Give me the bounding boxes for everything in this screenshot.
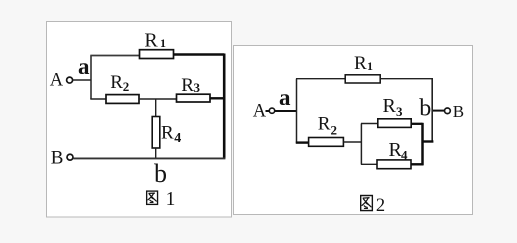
terminal B (fig2) (445, 102, 465, 121)
svg-text:R: R (318, 113, 331, 134)
resistor R2 (fig1) (106, 95, 139, 104)
svg-text:2: 2 (376, 196, 385, 216)
figure 2 panel (234, 46, 473, 215)
wire R4 stub top (fig1) (155, 99, 157, 118)
svg-text:a: a (279, 85, 291, 110)
svg-text:1: 1 (166, 189, 176, 210)
wire block bottom branch right thick (fig2) (411, 163, 423, 165)
wire middle left segment (fig1) (90, 98, 106, 100)
figure 1 panel (47, 22, 232, 218)
svg-text:4: 4 (174, 131, 181, 146)
svg-text:1: 1 (160, 36, 166, 50)
wire block left edge (fig2) (360, 124, 362, 165)
svg-text:A: A (50, 70, 64, 90)
wire middle mid segment (fig1) (139, 98, 177, 100)
wire left vertical (fig1) (90, 56, 92, 100)
wire R2 to block (fig2) (343, 141, 361, 143)
wire A lead (fig1) (73, 79, 91, 81)
svg-text:R: R (144, 30, 158, 52)
svg-text:B: B (51, 147, 64, 168)
wire block to right vertical stub (fig2) (422, 140, 434, 142)
label R2 (fig1) (110, 72, 129, 94)
svg-text:R: R (161, 123, 174, 144)
wire block bottom branch left (fig2) (361, 163, 377, 165)
terminal A (fig2) (253, 101, 275, 121)
resistor R1 (fig2) (345, 75, 380, 83)
resistor R3 (fig2) (378, 119, 411, 128)
label R1 (fig2) (354, 53, 373, 74)
wire top right thick segment (fig1) (174, 53, 225, 56)
svg-text:R: R (383, 95, 397, 117)
label R4 (fig2) (389, 139, 409, 163)
svg-text:b: b (154, 159, 167, 188)
svg-text:a: a (78, 54, 90, 79)
wire R2 left thick stub (fig2) (296, 141, 309, 143)
resistor R4 (fig2) (377, 160, 411, 169)
wire right vertical (fig2) (431, 79, 433, 143)
wire right vertical (fig1) (223, 54, 226, 159)
label R2 (fig2) (318, 113, 337, 137)
label R1 (fig1) (144, 30, 166, 52)
label R4 (fig1) (161, 123, 181, 146)
wire top left segment (fig1) (90, 55, 140, 57)
wire R4 stub bottom (fig1) (155, 148, 157, 159)
svg-text:b: b (419, 96, 431, 122)
wire block top branch right thick (fig2) (411, 123, 423, 125)
wire top right segment (fig2) (380, 78, 433, 80)
caption glyph tu (fig1) (147, 191, 158, 204)
svg-text:1: 1 (367, 59, 373, 73)
wire B lead (fig2) (433, 110, 445, 112)
wire left vertical (fig2) (296, 79, 298, 144)
resistor R4 (fig1) (152, 117, 160, 149)
wire block right edge thick (fig2) (421, 123, 424, 166)
svg-text:R: R (181, 75, 194, 96)
wire R3 to right vertical thick (fig1) (210, 97, 224, 99)
svg-text:R: R (110, 72, 123, 93)
wire A lead (fig2) (266, 110, 297, 112)
svg-text:R: R (354, 53, 367, 74)
svg-text:B: B (453, 102, 464, 121)
wire block top branch left (fig2) (361, 123, 378, 125)
label R3 (fig2) (383, 95, 404, 119)
svg-text:3: 3 (194, 80, 201, 95)
wire bottom (fig1) (73, 157, 225, 159)
resistor R2 (fig2) (309, 138, 344, 147)
terminal A (fig1) (50, 70, 73, 90)
svg-text:A: A (253, 101, 267, 121)
caption glyph tu (fig2) (361, 196, 373, 211)
terminal B (fig1) (51, 147, 73, 168)
svg-text:3: 3 (396, 104, 403, 119)
svg-text:2: 2 (331, 123, 338, 138)
resistor R3 (fig1) (177, 94, 211, 102)
resistor R1 (fig1) (140, 50, 174, 59)
wire top left segment (fig2) (296, 78, 346, 80)
label R3 (fig1) (181, 75, 200, 96)
svg-text:4: 4 (401, 148, 408, 163)
svg-text:2: 2 (123, 79, 130, 94)
